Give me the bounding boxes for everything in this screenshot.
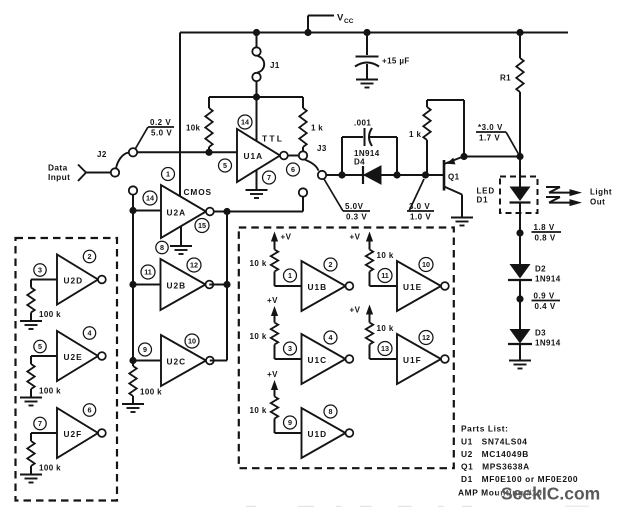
svg-text:2: 2	[329, 260, 333, 269]
svg-text:100 k: 100 k	[39, 387, 61, 396]
svg-text:R1: R1	[500, 74, 511, 83]
svg-text:10 k: 10 k	[250, 332, 267, 341]
svg-text:U2F: U2F	[64, 429, 83, 439]
svg-text:4: 4	[329, 333, 333, 342]
svg-text:1.7 V: 1.7 V	[479, 133, 500, 142]
svg-text:10 k: 10 k	[377, 324, 394, 333]
svg-text:J1: J1	[270, 61, 280, 70]
svg-text:D2: D2	[535, 265, 546, 274]
svg-text:3: 3	[288, 344, 292, 353]
svg-text:14: 14	[241, 118, 249, 127]
svg-text:+V: +V	[267, 370, 278, 379]
svg-text:11: 11	[381, 271, 389, 280]
svg-text:8: 8	[329, 407, 333, 416]
svg-text:LED: LED	[477, 187, 495, 196]
svg-text:U1B: U1B	[308, 282, 328, 292]
svg-text:7: 7	[267, 173, 271, 182]
svg-text:10: 10	[188, 337, 196, 346]
svg-text:1.8 V: 1.8 V	[534, 223, 555, 232]
svg-text:10: 10	[422, 260, 430, 269]
svg-text:9: 9	[143, 345, 147, 354]
svg-text:13: 13	[381, 344, 389, 353]
svg-text:U1A: U1A	[244, 151, 264, 161]
svg-text:5.0V: 5.0V	[345, 202, 364, 211]
svg-text:+15 µF: +15 µF	[382, 57, 410, 66]
svg-text:+V: +V	[350, 306, 361, 315]
svg-text:5.0 V: 5.0 V	[151, 128, 172, 137]
svg-text:14: 14	[146, 194, 154, 203]
svg-text:5: 5	[38, 342, 42, 351]
svg-text:Q1: Q1	[448, 173, 460, 182]
svg-text:0.9 V: 0.9 V	[534, 291, 555, 300]
svg-text:100 k: 100 k	[39, 310, 61, 319]
svg-text:U2 MC14049B: U2 MC14049B	[461, 449, 529, 459]
svg-text:U1C: U1C	[308, 355, 328, 365]
svg-text:1 k: 1 k	[311, 124, 323, 133]
svg-text:0.2 V: 0.2 V	[150, 118, 171, 127]
svg-text:J3: J3	[317, 144, 327, 153]
svg-text:D3: D3	[535, 329, 546, 338]
svg-text:CC: CC	[344, 18, 354, 25]
svg-text:6: 6	[291, 165, 295, 174]
svg-text:1: 1	[166, 170, 170, 179]
svg-text:Light: Light	[590, 188, 612, 197]
svg-text:0.4 V: 0.4 V	[535, 302, 556, 311]
svg-text:J2: J2	[97, 150, 107, 159]
svg-text:5: 5	[223, 161, 227, 170]
svg-text:Data: Data	[48, 163, 68, 173]
svg-text:6: 6	[88, 406, 92, 415]
svg-text:8: 8	[160, 243, 164, 252]
svg-text:+V: +V	[281, 233, 292, 242]
svg-text:Q1 MPS3638A: Q1 MPS3638A	[461, 462, 530, 472]
svg-text:TTL: TTL	[262, 134, 284, 144]
svg-text:V: V	[337, 13, 344, 24]
svg-text:10 k: 10 k	[377, 251, 394, 260]
svg-text:1N914: 1N914	[535, 275, 561, 284]
svg-text:4: 4	[88, 329, 92, 338]
svg-text:D1 MF0E100 or MF0E200: D1 MF0E100 or MF0E200	[461, 474, 578, 484]
svg-text:U1E: U1E	[403, 282, 422, 292]
svg-text:D1: D1	[477, 196, 489, 205]
svg-text:7: 7	[38, 419, 42, 428]
svg-text:1 k: 1 k	[409, 130, 421, 139]
svg-text:1.0 V: 1.0 V	[410, 212, 431, 221]
svg-text:+V: +V	[267, 296, 278, 305]
svg-text:U2A: U2A	[167, 208, 187, 218]
svg-text:10 k: 10 k	[250, 406, 267, 415]
svg-text:12: 12	[190, 261, 198, 270]
svg-text:100 k: 100 k	[140, 388, 162, 397]
svg-text:Out: Out	[590, 198, 605, 207]
svg-text:3: 3	[38, 266, 42, 275]
svg-text:*3.0 V: *3.0 V	[478, 123, 503, 132]
svg-text:0.8 V: 0.8 V	[535, 233, 556, 242]
svg-text:SeekIC.com: SeekIC.com	[501, 484, 600, 504]
svg-text:+V: +V	[350, 233, 361, 242]
svg-text:15: 15	[198, 221, 206, 230]
svg-text:10k: 10k	[186, 124, 200, 133]
svg-text:9: 9	[288, 418, 292, 427]
svg-text:U1D: U1D	[308, 429, 328, 439]
svg-text:12: 12	[422, 333, 430, 342]
svg-text:.001: .001	[354, 119, 371, 128]
svg-text:U1F: U1F	[403, 355, 422, 365]
svg-text:U1 SN74LS04: U1 SN74LS04	[461, 437, 527, 447]
svg-text:1: 1	[288, 271, 292, 280]
svg-text:CMOS: CMOS	[184, 187, 213, 197]
svg-text:10 k: 10 k	[250, 259, 267, 268]
svg-text:D4: D4	[354, 158, 365, 167]
svg-text:U2E: U2E	[64, 352, 83, 362]
svg-text:U2B: U2B	[167, 281, 187, 291]
svg-text:0.3 V: 0.3 V	[346, 212, 367, 221]
svg-text:11: 11	[144, 268, 152, 277]
svg-text:2: 2	[88, 252, 92, 261]
svg-text:Parts List:: Parts List:	[461, 424, 509, 434]
svg-text:U2C: U2C	[167, 357, 187, 367]
svg-text:1N914: 1N914	[535, 339, 561, 348]
svg-text:U2D: U2D	[64, 276, 84, 286]
svg-text:Input: Input	[48, 172, 70, 182]
svg-text:100 k: 100 k	[39, 464, 61, 473]
